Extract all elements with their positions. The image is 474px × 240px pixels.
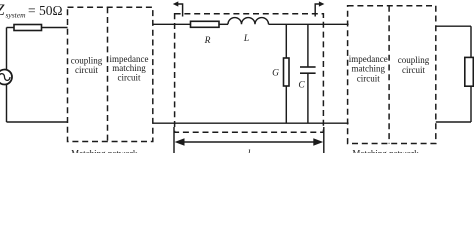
wire top right <box>436 25 471 27</box>
capacitor C top plate <box>300 66 316 68</box>
wire bottom right <box>436 121 471 123</box>
dashed box right group (impedance matching + coupling) <box>348 6 436 144</box>
wire source top vertical <box>6 28 8 70</box>
inductor L coil <box>228 18 269 25</box>
svg-text:circuit: circuit <box>118 73 141 83</box>
dashed divider left group <box>107 7 109 141</box>
resistor R body <box>191 21 220 27</box>
wire L to right <box>269 23 349 25</box>
wire bottom middle <box>153 122 349 124</box>
svg-text:coupling: coupling <box>398 55 430 65</box>
wire R to L <box>219 23 228 25</box>
svg-text:R: R <box>204 36 211 46</box>
svg-text:Matching network: Matching network <box>71 149 138 154</box>
wire C branch top <box>307 24 309 67</box>
capacitor C bottom plate <box>300 72 316 74</box>
wire G branch top <box>285 24 287 58</box>
svg-text:circuit: circuit <box>75 65 98 75</box>
label coupling circuit left <box>71 55 103 75</box>
wire source bottom vertical <box>6 85 8 123</box>
svg-text:coupling: coupling <box>71 55 103 65</box>
dashed box transmission line section <box>175 14 324 133</box>
wire C branch bottom <box>307 73 309 123</box>
wire bottom left horizontal <box>7 121 68 123</box>
svg-text:L: L <box>243 34 249 44</box>
svg-text:l: l <box>248 149 251 154</box>
wire load top vertical <box>470 26 472 57</box>
svg-text:C: C <box>298 81 305 91</box>
dimension extension bar left <box>173 127 175 153</box>
wire resistor to coupling box <box>42 27 68 29</box>
resistor G body <box>284 58 290 86</box>
dashed divider right group <box>388 6 390 144</box>
wire top left to resistor <box>7 27 15 29</box>
svg-text:circuit: circuit <box>357 73 380 83</box>
AC source sine wave <box>0 74 10 81</box>
label impedance matching circuit right <box>349 54 388 83</box>
dashed box left group (coupling + impedance matching) <box>68 7 153 141</box>
wire G branch bottom <box>285 86 287 123</box>
label coupling circuit right <box>398 55 430 75</box>
svg-text:circuit: circuit <box>402 65 425 75</box>
svg-text:Matching network: Matching network <box>352 149 419 154</box>
svg-text:matching: matching <box>352 63 386 73</box>
svg-text:matching: matching <box>112 63 146 73</box>
resistor load body <box>465 57 474 86</box>
svg-text:G: G <box>272 69 279 79</box>
dimension arrow line l <box>183 141 315 143</box>
svg-text:system: system <box>6 11 27 20</box>
dimension extension bar right <box>323 127 325 153</box>
resistor Zsystem body <box>14 25 42 31</box>
wire load bottom vertical <box>470 86 472 122</box>
label Z_system = 50 ohm <box>0 2 63 20</box>
svg-text:= 50Ω: = 50Ω <box>28 3 63 18</box>
arrow port left <box>176 4 183 17</box>
arrow port right <box>315 4 321 17</box>
wire top middle <box>153 23 191 25</box>
AC source V1 <box>0 70 12 85</box>
label impedance matching circuit left <box>110 54 149 83</box>
